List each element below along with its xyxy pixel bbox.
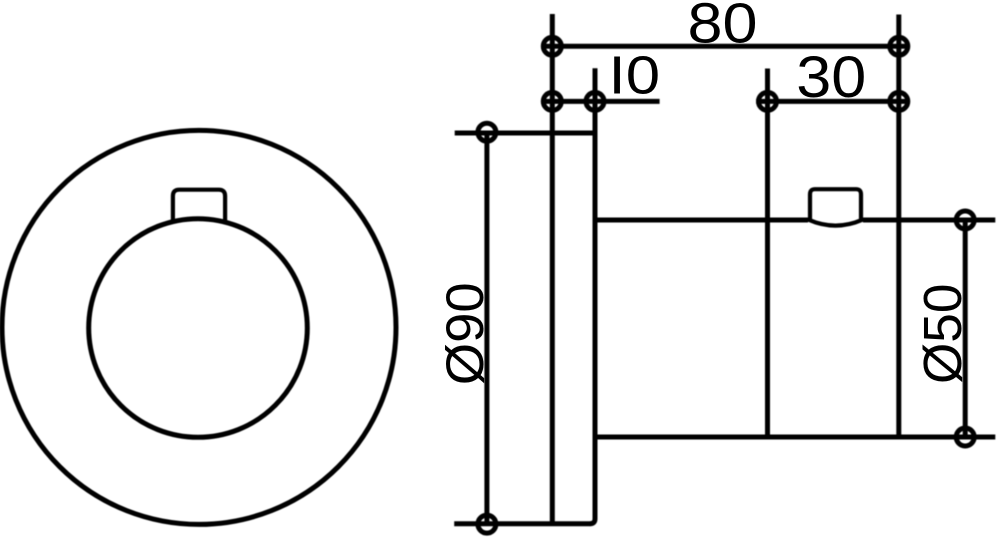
dim line 80 — [541, 44, 910, 49]
dim endpoint circle 30 left — [759, 92, 777, 110]
plate top edge / dim90 top extension — [455, 131, 595, 136]
outer circle (front view, diameter 90) — [2, 130, 396, 524]
dim endpoint circle d90 bottom — [478, 515, 496, 533]
dim endpoint circle d50 bottom — [956, 428, 974, 446]
inner circle (front view, diameter 50) — [89, 219, 308, 438]
body top edge left of tab — [595, 218, 808, 223]
dim line d50 vertical — [963, 220, 968, 437]
dim line 30 — [756, 99, 910, 104]
body right edge / dim80 extension — [896, 15, 901, 438]
svg-text:I0: I0 — [609, 47, 661, 106]
side tab bottom arc — [809, 220, 863, 226]
dim endpoint circle 10 right — [586, 92, 604, 110]
dim line 10 — [541, 99, 660, 104]
svg-text:Ø50: Ø50 — [913, 284, 973, 385]
dim endpoint circle 30 right — [890, 92, 908, 110]
dim endpoint circle 80 left — [543, 37, 561, 55]
side handle tab — [810, 189, 861, 221]
svg-text:Ø90: Ø90 — [436, 282, 495, 385]
dim line d90 vertical — [484, 132, 489, 524]
plate right edge with rounded bottom corner — [590, 68, 595, 524]
svg-text:30: 30 — [796, 45, 866, 110]
body top edge right of tab / dim50 top extension — [863, 218, 995, 223]
dim endpoint circle d50 top — [956, 211, 974, 229]
body bottom edge / dim50 bottom extension — [595, 435, 995, 440]
body feature line / dim30 extension — [765, 69, 770, 438]
plate bottom edge / dim90 bottom extension — [454, 521, 590, 526]
dim endpoint circle 10 left — [543, 92, 561, 110]
svg-text:80: 80 — [688, 0, 758, 56]
plate left edge / extension line — [550, 14, 555, 524]
dim endpoint circle 80 right — [890, 37, 908, 55]
dim endpoint circle d90 top — [478, 123, 496, 141]
front handle tab — [173, 190, 225, 224]
